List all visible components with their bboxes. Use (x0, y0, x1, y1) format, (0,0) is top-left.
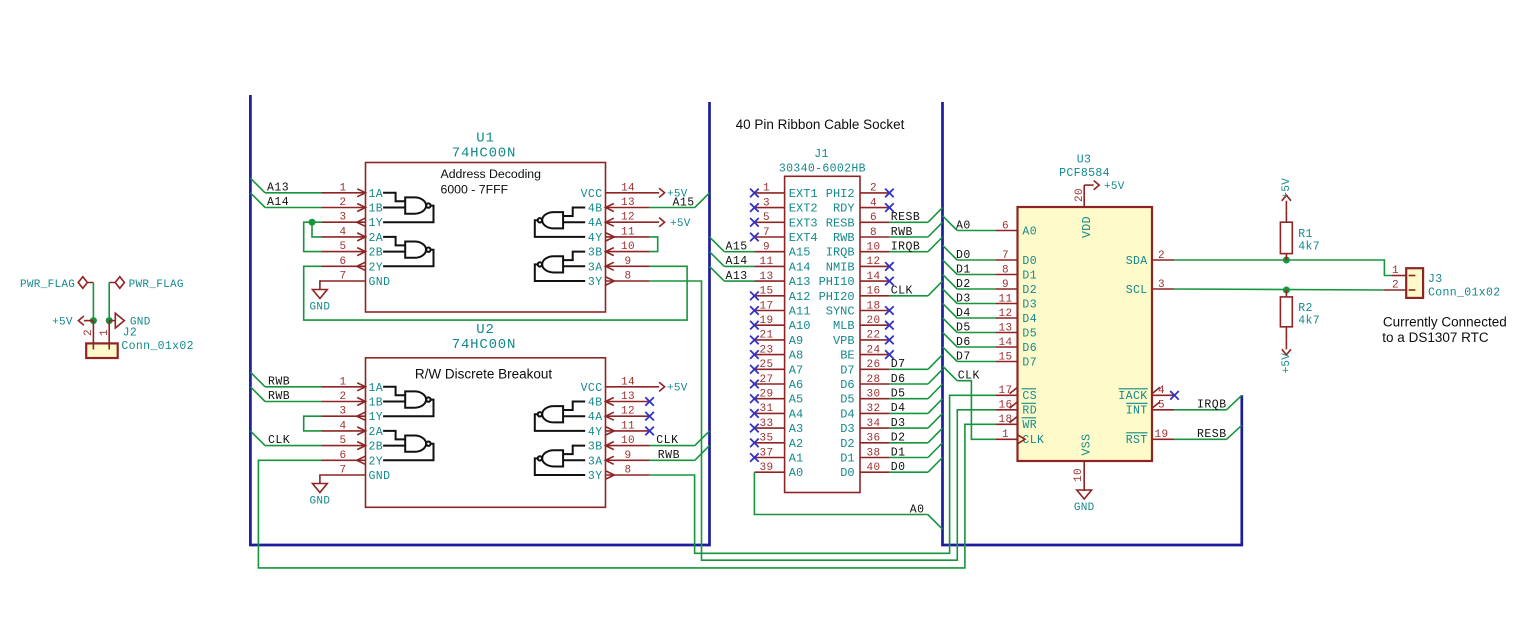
svg-text:15: 15 (998, 351, 1012, 363)
svg-text:A4: A4 (789, 407, 803, 421)
svg-text:PWR_FLAG: PWR_FLAG (20, 279, 75, 291)
svg-text:4k7: 4k7 (1298, 240, 1320, 253)
bus entry D7 (BUS2 to U3) (943, 347, 958, 362)
svg-text:J2: J2 (123, 327, 138, 340)
svg-text:VSS: VSS (1081, 434, 1094, 456)
svg-text:36: 36 (866, 433, 880, 445)
svg-text:6: 6 (339, 256, 346, 268)
wire U1 3Y (pin8) to U3 RD (650, 281, 996, 560)
wire A0 from J1 pin39 (754, 472, 927, 514)
U1 pin 13 (4B) (606, 207, 650, 209)
svg-text:VDD: VDD (1081, 216, 1094, 238)
J1 pin 40 (D0) (860, 471, 889, 473)
J1 pin 32 (D4) (860, 412, 889, 414)
junction +5V (90, 317, 97, 324)
J1 pin 28 (D6) (860, 383, 889, 385)
svg-text:27: 27 (759, 374, 773, 386)
svg-text:D5: D5 (1022, 327, 1037, 340)
wire U2 1Y to 2A loop (304, 416, 321, 431)
wire A14 to U1 pin2 (265, 207, 321, 209)
U1 pin 8 (3Y) (606, 280, 650, 282)
no-connect J1 pin 1 (750, 189, 759, 198)
svg-text:A12: A12 (789, 290, 811, 304)
svg-text:3: 3 (339, 406, 346, 418)
svg-text:5: 5 (339, 241, 346, 253)
svg-text:A5: A5 (789, 393, 803, 407)
J1 pin 9 (A15) (754, 251, 784, 253)
svg-text:A2: A2 (789, 437, 803, 451)
svg-text:SCL: SCL (1126, 284, 1148, 297)
svg-text:RWB: RWB (833, 231, 855, 245)
svg-text:18: 18 (998, 414, 1012, 426)
svg-text:CLK: CLK (891, 285, 913, 298)
svg-text:CLK: CLK (656, 434, 678, 447)
svg-text:1: 1 (339, 376, 346, 388)
J1 pin 25 (A7) (754, 368, 784, 370)
svg-text:D0: D0 (891, 461, 906, 474)
svg-text:12: 12 (998, 308, 1012, 320)
svg-text:11: 11 (759, 256, 773, 268)
svg-text:INT: INT (1126, 405, 1148, 418)
svg-text:D5: D5 (956, 321, 971, 334)
J1 pin 24 (BE) (860, 354, 889, 356)
J1 pin 5 (EXT3) (754, 221, 784, 223)
svg-text:D7: D7 (1022, 356, 1037, 369)
no-connect J1 pin 35 (750, 439, 759, 448)
J1 pin 39 (A0) (754, 471, 784, 473)
svg-text:10: 10 (1073, 468, 1085, 482)
J1 pin 18 (SYNC) (860, 310, 889, 312)
wire A14 to J1 pin11 (724, 265, 754, 267)
svg-text:D2: D2 (891, 432, 906, 445)
wire D4 from J1 pin 32 (889, 412, 928, 414)
svg-text:D4: D4 (891, 402, 906, 415)
svg-text:4: 4 (1158, 385, 1165, 397)
svg-text:30: 30 (866, 389, 880, 401)
U1 pin 14 (VCC) (606, 192, 650, 194)
U3 pin 19 (RST) (1152, 438, 1174, 440)
svg-text:8: 8 (870, 227, 877, 239)
ground symbol U2 pin7 (320, 475, 321, 484)
svg-text:A0: A0 (956, 219, 971, 232)
U2 pin 3 (1Y) (321, 415, 365, 417)
svg-text:NMIB: NMIB (826, 260, 855, 274)
svg-text:D2: D2 (840, 437, 854, 451)
no-connect J1 pin 27 (750, 380, 759, 389)
U2 pin 5 (2B) (321, 445, 365, 447)
power +5V at J2 (78, 316, 93, 325)
op-amp U2 body 74HC00N (366, 358, 606, 508)
svg-text:37: 37 (759, 447, 773, 459)
bus entry A0 (BUS2 to U3) (943, 216, 958, 231)
svg-text:1Y: 1Y (369, 217, 384, 230)
svg-text:7: 7 (339, 271, 346, 283)
svg-text:GND: GND (1074, 502, 1095, 514)
svg-text:1: 1 (763, 183, 770, 195)
svg-text:to a DS1307 RTC: to a DS1307 RTC (1382, 330, 1489, 345)
J1 pin 12 (NMIB) (860, 265, 889, 267)
svg-text:24: 24 (866, 344, 880, 356)
U1 pin 3 (1Y) (321, 221, 365, 223)
bus entry D4 (BUS2 to U3) (943, 303, 958, 318)
svg-text:13: 13 (621, 391, 635, 403)
J1 pin 6 (RESB) (860, 221, 889, 223)
wire RWB from J1 pin 8 (889, 236, 928, 238)
ground symbol at J2 (109, 320, 115, 322)
svg-text:RESB: RESB (891, 211, 921, 224)
no-connect J1 pin 24 (885, 350, 894, 359)
svg-text:32: 32 (866, 403, 880, 415)
svg-text:16: 16 (866, 286, 880, 298)
wire IRQB from U3 INT (1174, 409, 1227, 411)
svg-text:D5: D5 (840, 393, 854, 407)
bus entry D2 (J1 to BUS2) (928, 428, 943, 443)
svg-text:2B: 2B (369, 441, 384, 454)
svg-text:6: 6 (1002, 220, 1009, 232)
svg-text:D3: D3 (956, 292, 971, 305)
svg-text:74HC00N: 74HC00N (452, 146, 516, 162)
connector J1 body 30340-6002HB (785, 176, 860, 492)
U1 gate C (3B,3A->3Y) (535, 252, 585, 281)
svg-text:CLK: CLK (958, 369, 980, 382)
svg-text:WR: WR (1022, 419, 1037, 432)
svg-text:Currently Connected: Currently Connected (1383, 315, 1507, 330)
no-connect U3 pin4 IACK (1170, 391, 1179, 400)
svg-text:1: 1 (1392, 265, 1399, 277)
bus entry D1 (BUS2 to U3) (943, 260, 958, 275)
svg-text:D7: D7 (891, 358, 906, 371)
svg-text:30340-6002HB: 30340-6002HB (779, 163, 866, 176)
svg-text:CLK: CLK (1022, 434, 1044, 447)
J1 pin 37 (A1) (754, 457, 784, 459)
power +5V on U1 pin14 (650, 188, 665, 197)
svg-text:A14: A14 (267, 196, 289, 209)
svg-text:RWB: RWB (891, 226, 913, 239)
U1 pin 10 (3B) (606, 251, 650, 253)
svg-text:MLB: MLB (833, 319, 855, 333)
wire CLK from U2 pin10 (650, 445, 695, 447)
svg-text:A13: A13 (789, 275, 811, 289)
svg-text:4A: 4A (588, 411, 603, 424)
svg-text:4Y: 4Y (588, 232, 603, 245)
svg-text:D0: D0 (956, 249, 971, 262)
U1 pin 1 (1A) (321, 192, 365, 194)
svg-text:VCC: VCC (581, 382, 603, 395)
svg-text:3: 3 (339, 212, 346, 224)
wire RWB from U2 pin9 (650, 459, 695, 461)
U2 pin 13 (4B) (606, 401, 650, 403)
wire RWB to U2 pin2 (265, 401, 321, 403)
U3 pin 13 (D5) (995, 332, 1017, 334)
J2 pin 2 (92, 321, 94, 350)
svg-text:10: 10 (621, 435, 635, 447)
svg-text:3: 3 (1158, 279, 1165, 291)
no-connect J1 pin 25 (750, 365, 759, 374)
svg-text:13: 13 (759, 271, 773, 283)
U3 pin 8 (D1) (995, 274, 1017, 276)
svg-text:A0: A0 (789, 466, 803, 480)
svg-text:A3: A3 (789, 422, 803, 436)
svg-text:+5V: +5V (1104, 181, 1125, 193)
U2 pin 1 (1A) (321, 386, 365, 388)
svg-text:CLK: CLK (268, 434, 290, 447)
U2 gate C (3B,3A->3Y) (535, 446, 585, 475)
J2 pin 1 (108, 321, 110, 350)
no-connect J1 pin 5 (750, 218, 759, 227)
svg-text:22: 22 (866, 330, 880, 342)
U1 gate D (4B,4A->4Y) (535, 208, 585, 237)
U3 pin 1 (CLK) (995, 438, 1017, 440)
svg-text:13: 13 (998, 322, 1012, 334)
svg-text:+5V: +5V (52, 316, 73, 328)
U2 pin 4 (2A) (321, 430, 365, 432)
J1 pin 29 (A5) (754, 398, 784, 400)
svg-text:GND: GND (369, 470, 391, 483)
svg-text:GND: GND (369, 276, 391, 289)
svg-text:38: 38 (866, 447, 880, 459)
svg-text:A13: A13 (726, 270, 748, 283)
J1 pin 21 (A9) (754, 339, 784, 341)
svg-text:3B: 3B (588, 441, 603, 454)
svg-text:1Y: 1Y (369, 411, 384, 424)
svg-text:40 Pin Ribbon Cable Socket: 40 Pin Ribbon Cable Socket (736, 117, 905, 132)
svg-text:1B: 1B (369, 397, 384, 410)
wire D1 to U3 (957, 274, 995, 276)
J1 pin 1 (EXT1) (754, 192, 784, 194)
U2 pin 9 (3A) (606, 459, 650, 461)
no-connect J1 pin 22 (885, 336, 894, 345)
svg-text:26: 26 (866, 359, 880, 371)
svg-text:11: 11 (621, 420, 635, 432)
svg-text:D3: D3 (840, 422, 854, 436)
svg-text:D4: D4 (1022, 313, 1037, 326)
no-connect J1 pin 18 (885, 306, 894, 315)
U1 pin 5 (2B) (321, 251, 365, 253)
J1 pin 22 (VPB) (860, 339, 889, 341)
svg-text:35: 35 (759, 433, 773, 445)
bus entry CLK (J1 to BUS2) (928, 281, 943, 296)
svg-text:7: 7 (763, 227, 770, 239)
no-connect J1 pin 15 (750, 292, 759, 301)
bus entry A13 (BUS1 to U1.1A) (250, 178, 265, 193)
J1 pin 17 (A11) (754, 310, 784, 312)
bus entry D6 (J1 to BUS2) (928, 369, 943, 384)
wire A0 to U3 (957, 230, 995, 232)
U1 gate B (2A,2B->2Y) (383, 237, 433, 266)
U3 pin 3 (SCL) (1152, 288, 1174, 290)
U1 pin 9 (3A) (606, 265, 650, 267)
bus entry CLK (BUS2 to U3) (943, 366, 958, 381)
svg-text:D1: D1 (891, 446, 906, 459)
svg-text:RESB: RESB (1197, 428, 1227, 441)
no-connect J1 pin 33 (750, 424, 759, 433)
no-connect J1 pin 21 (750, 336, 759, 345)
svg-text:RWB: RWB (658, 449, 680, 462)
J1 pin 15 (A12) (754, 295, 784, 297)
svg-text:20: 20 (1074, 188, 1086, 202)
wire RESB from J1 pin 6 (889, 221, 928, 223)
wire D3 from J1 pin 34 (889, 427, 928, 429)
svg-text:D2: D2 (956, 278, 971, 291)
wire A13 to J1 pin13 (724, 280, 754, 282)
svg-text:A1: A1 (789, 452, 803, 466)
svg-text:8: 8 (624, 271, 631, 283)
svg-text:2A: 2A (369, 426, 384, 439)
J1 pin 3 (EXT2) (754, 207, 784, 209)
svg-text:SYNC: SYNC (826, 305, 855, 319)
svg-text:D4: D4 (956, 307, 971, 320)
ground symbol U1 pin7 (320, 280, 321, 282)
wire D6 to U3 (957, 346, 995, 348)
wire U1 4Y to 3B loop (650, 237, 658, 252)
svg-text:74HC00N: 74HC00N (452, 337, 516, 353)
bus entry D5 (J1 to BUS2) (928, 384, 943, 399)
svg-text:20: 20 (866, 315, 880, 327)
bus entry A15 (BUS1 to J1) (710, 237, 725, 252)
wire CLK to U3 pin1 (957, 381, 995, 440)
svg-text:A15: A15 (789, 246, 811, 260)
no-connect J1 pin 3 (750, 203, 759, 212)
svg-text:39: 39 (759, 462, 773, 474)
svg-text:40: 40 (866, 462, 880, 474)
svg-text:4k7: 4k7 (1298, 314, 1320, 327)
no-connect J1 pin 29 (750, 394, 759, 403)
svg-text:2Y: 2Y (369, 261, 384, 274)
svg-text:14: 14 (621, 376, 635, 388)
svg-text:8: 8 (624, 465, 631, 477)
bus entry RESB (U3 to BUS2) (1227, 425, 1242, 439)
wire U1 2Y to 3A (bottom loop) (304, 266, 687, 320)
U1 pin 4 (2A) (321, 236, 365, 238)
svg-text:18: 18 (866, 300, 880, 312)
svg-text:9: 9 (1002, 279, 1009, 291)
svg-text:U2: U2 (476, 322, 494, 338)
svg-text:A9: A9 (789, 334, 803, 348)
svg-text:21: 21 (759, 330, 773, 342)
svg-text:+5V: +5V (670, 218, 691, 230)
bus entry RWB (J1 to BUS2) (928, 222, 943, 237)
power +5V on U1 pin12 (650, 218, 665, 227)
U3 pin 11 (D3) (995, 303, 1017, 305)
wire IRQB from J1 pin 10 (889, 251, 928, 253)
bus entry A13 (BUS1 to J1) (710, 266, 725, 281)
svg-text:4Y: 4Y (588, 426, 603, 439)
junction SDA at R1 (1283, 257, 1290, 264)
svg-text:R2: R2 (1298, 302, 1313, 315)
bus entry IRQB (U3 to BUS2) (1227, 395, 1242, 410)
J1 pin 23 (A8) (754, 354, 784, 356)
svg-text:11: 11 (621, 226, 635, 238)
svg-text:R/W Discrete Breakout: R/W Discrete Breakout (415, 367, 553, 382)
svg-text:D3: D3 (1022, 298, 1037, 311)
svg-text:D6: D6 (891, 373, 906, 386)
power +5V on U3 VDD (1084, 181, 1099, 190)
svg-text:17: 17 (998, 385, 1012, 397)
svg-text:VCC: VCC (581, 188, 603, 201)
junction GND (106, 317, 113, 324)
U2 pin 14 (VCC) (606, 386, 650, 388)
svg-text:VPB: VPB (833, 334, 855, 348)
svg-text:3A: 3A (588, 455, 603, 468)
svg-text:8: 8 (1002, 264, 1009, 276)
svg-text:PHI20: PHI20 (819, 290, 855, 304)
power +5V on U2 pin14 (650, 382, 665, 391)
svg-text:12: 12 (621, 212, 635, 224)
power flag PWR_FLAG right (109, 277, 124, 289)
svg-text:BE: BE (840, 349, 854, 363)
svg-text:4A: 4A (588, 217, 603, 230)
svg-text:D3: D3 (891, 417, 906, 430)
J1 pin 34 (D3) (860, 427, 889, 429)
wire D2 from J1 pin 36 (889, 442, 928, 444)
svg-text:EXT1: EXT1 (789, 187, 818, 201)
bus entry D7 (J1 to BUS2) (928, 355, 943, 370)
wire U1 1Y to 2B (304, 222, 321, 251)
wire D7 to U3 (957, 361, 995, 363)
no-connect J1 pin 31 (750, 409, 759, 418)
svg-text:CS: CS (1022, 390, 1037, 403)
bus BUS1 (address bus, left U-shape) (250, 95, 709, 545)
svg-text:17: 17 (759, 300, 773, 312)
svg-text:RWB: RWB (268, 390, 290, 403)
bus entry CLK (BUS1 to U2.2B) (250, 431, 265, 446)
svg-text:Address Decoding: Address Decoding (441, 167, 542, 181)
J1 pin 20 (MLB) (860, 324, 889, 326)
bus entry D1 (J1 to BUS2) (928, 443, 943, 458)
wire +5V to J2 pin2 (92, 283, 94, 321)
svg-text:1: 1 (99, 329, 111, 336)
J1 pin 2 (PHI2) (860, 192, 889, 194)
U2 pin 10 (3B) (606, 445, 650, 447)
J1 pin 26 (D7) (860, 368, 889, 370)
svg-text:D1: D1 (956, 263, 971, 276)
svg-text:D1: D1 (1022, 269, 1037, 282)
svg-text:11: 11 (998, 293, 1012, 305)
wire RWB to U2 pin1 (265, 386, 321, 388)
no-connect U2 pin12 (645, 412, 654, 421)
power +5V above R1 (1282, 195, 1291, 210)
U1 pin 2 (1B) (321, 207, 365, 209)
svg-text:Conn_01x02: Conn_01x02 (121, 340, 194, 353)
U2 pin 12 (4A) (606, 415, 650, 417)
U1 pin 11 (4Y) (606, 236, 650, 238)
no-connect U2 pin11 (645, 427, 654, 436)
svg-text:U1: U1 (476, 131, 494, 147)
svg-text:PHI2: PHI2 (826, 187, 855, 201)
svg-text:PHI10: PHI10 (819, 275, 855, 289)
svg-text:3: 3 (763, 197, 770, 209)
svg-text:IRQB: IRQB (826, 246, 855, 260)
svg-text:RESB: RESB (826, 216, 855, 230)
wire GND to J2 pin1 (108, 283, 110, 321)
connector J3 body Conn_01x02 (1406, 268, 1423, 298)
svg-text:A11: A11 (789, 305, 811, 319)
no-connect J1 pin 12 (885, 262, 894, 271)
svg-text:SDA: SDA (1126, 255, 1148, 268)
svg-text:4B: 4B (588, 397, 603, 410)
wire D3 to U3 (957, 303, 995, 305)
bus entry D3 (J1 to BUS2) (928, 413, 943, 428)
wire U2 3Y (pin8) to U3 CS (650, 395, 996, 553)
bus entry A15 (U1 to BUS1) (695, 193, 710, 208)
bus entry D2 (BUS2 to U3) (943, 274, 958, 289)
svg-text:7: 7 (339, 465, 346, 477)
svg-text:D6: D6 (840, 378, 854, 392)
IC U3 body PCF8584 (1018, 207, 1153, 461)
bus entry A0 (J1 to BUS2) (928, 515, 943, 530)
bus entry D0 (J1 to BUS2) (928, 458, 943, 473)
svg-text:10: 10 (621, 241, 635, 253)
